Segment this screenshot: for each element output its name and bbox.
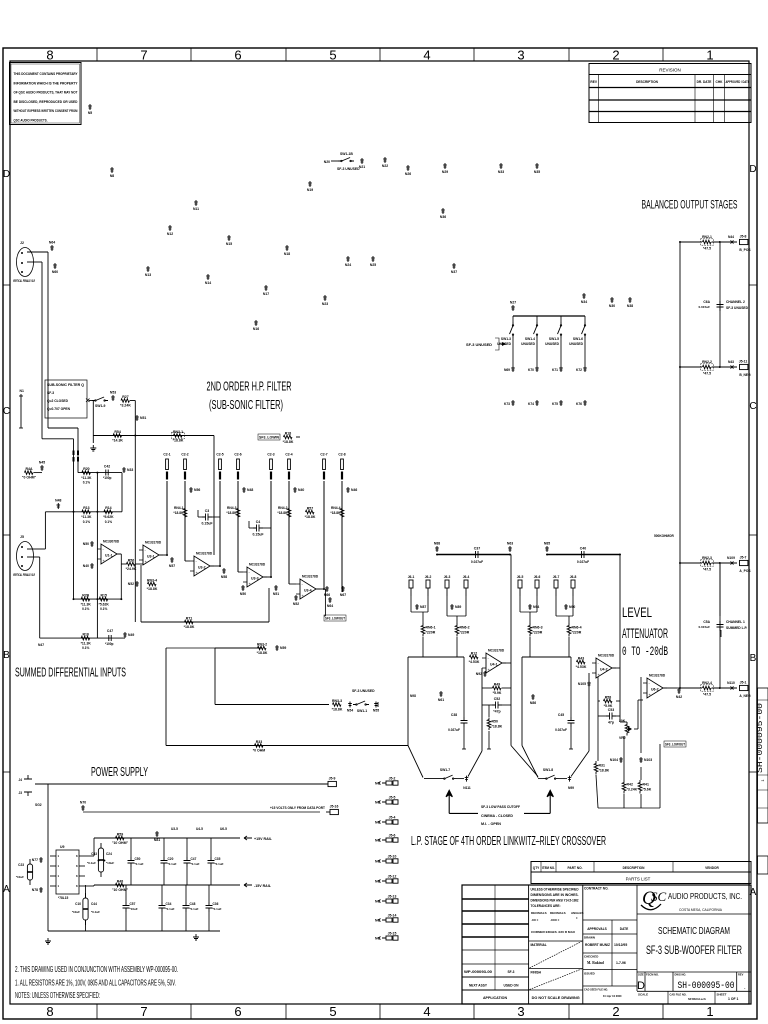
junction xyxy=(98,860,100,862)
capacitor C20 xyxy=(161,857,168,867)
no-connect test point N17 xyxy=(264,285,268,291)
svg-text:C47: C47 xyxy=(107,629,113,633)
svg-text:N99: N99 xyxy=(568,786,574,790)
svg-text:INFORMATION WHICH IS THE PROPE: INFORMATION WHICH IS THE PROPERTY xyxy=(14,81,79,85)
svg-text:*47p: *47p xyxy=(493,710,500,714)
svg-text:DRAWN: DRAWN xyxy=(584,936,595,940)
svg-text:.XXX ±: .XXX ± xyxy=(550,918,560,922)
svg-text:UNLESS OTHERWISE SPECIFIED: UNLESS OTHERWISE SPECIFIED xyxy=(531,888,580,892)
svg-text:MC33178D: MC33178D xyxy=(649,674,666,678)
svg-text:CORNER EDGES .020 R MAX: CORNER EDGES .020 R MAX xyxy=(531,930,575,934)
junction xyxy=(679,562,681,564)
connector pin J5-7 xyxy=(740,560,748,565)
svg-text:C20: C20 xyxy=(168,857,174,861)
capacitor C37 xyxy=(472,551,482,558)
op-amp U4-1 xyxy=(482,653,506,673)
junction xyxy=(436,554,438,556)
svg-text:C2-2: C2-2 xyxy=(181,453,188,457)
svg-text:0.027uF: 0.027uF xyxy=(577,560,589,564)
svg-text:SF-3 LOW PASS CUTOFF: SF-3 LOW PASS CUTOFF xyxy=(481,805,520,809)
wire xyxy=(165,648,167,746)
rail arrows xyxy=(240,836,252,840)
svg-text:N78: N78 xyxy=(32,888,38,892)
svg-text:5: 5 xyxy=(329,1004,336,1019)
connector pin J5-11 xyxy=(740,364,748,369)
svg-text:*3.24K: *3.24K xyxy=(627,788,638,792)
svg-text:N48: N48 xyxy=(55,499,61,503)
svg-text:U3-5: U3-5 xyxy=(171,827,178,831)
connector pin J5-1 xyxy=(740,685,748,690)
svg-text:SW1-6: SW1-6 xyxy=(573,337,583,341)
svg-text:SF3SCH.sch: SF3SCH.sch xyxy=(688,997,706,1001)
svg-text:C53: C53 xyxy=(608,708,614,712)
svg-text:N60: N60 xyxy=(52,270,58,274)
svg-text:SF3_LOWOUT: SF3_LOWOUT xyxy=(665,743,685,747)
resistor R41 xyxy=(638,780,642,794)
wire fb junction 2 xyxy=(588,673,590,751)
svg-text:N34: N34 xyxy=(581,300,587,304)
svg-text:WITHOUT EXPRESS WRITTEN CONSEN: WITHOUT EXPRESS WRITTEN CONSENT FROM xyxy=(14,109,78,113)
svg-text:SF3_LOWOUT: SF3_LOWOUT xyxy=(325,617,345,621)
svg-text:*0.1uF: *0.1uF xyxy=(87,861,96,865)
svg-text:R14: R14 xyxy=(105,506,111,510)
svg-text:R15: R15 xyxy=(100,594,106,598)
junction xyxy=(719,687,721,689)
svg-text:SUMMED L.P.: SUMMED L.P. xyxy=(726,626,747,630)
svg-text:VR2: VR2 xyxy=(619,736,626,740)
svg-text:0.027uF: 0.027uF xyxy=(555,728,567,732)
resistor RN4-1 xyxy=(183,506,187,520)
svg-text:*0.1uF: *0.1uF xyxy=(213,907,222,911)
svg-text:.XX ±: .XX ± xyxy=(531,918,539,922)
wire vertical to RT1 xyxy=(134,436,136,623)
wire funnel diag xyxy=(408,746,423,778)
svg-text:5: 5 xyxy=(329,48,336,63)
svg-text:N33: N33 xyxy=(127,468,133,472)
svg-text:R43: R43 xyxy=(578,656,584,660)
svg-text:UNUSED: UNUSED xyxy=(569,342,584,346)
svg-text:N61: N61 xyxy=(438,698,444,702)
svg-text:0.027uF: 0.027uF xyxy=(448,728,460,732)
svg-text:DECIMALS: DECIMALS xyxy=(531,911,547,915)
svg-text:U3-4: U3-4 xyxy=(304,589,312,593)
svg-text:A_POS: A_POS xyxy=(739,569,751,573)
wire ps left vertical xyxy=(47,784,49,931)
junction xyxy=(73,598,75,600)
svg-text:N98: N98 xyxy=(410,694,416,698)
power supply top wire xyxy=(35,783,328,785)
svg-text:TOLERANCES ARE:: TOLERANCES ARE: xyxy=(531,904,561,908)
wire R13 row xyxy=(45,511,122,513)
svg-text:N64: N64 xyxy=(327,604,333,608)
wire bus2 drop to VR2 xyxy=(619,555,621,723)
wire xyxy=(268,588,270,622)
svg-text:N19: N19 xyxy=(307,188,313,192)
svg-text:N22: N22 xyxy=(382,164,388,168)
svg-text:*10uF: *10uF xyxy=(72,910,80,914)
svg-text:REV: REV xyxy=(590,80,597,84)
pin N60 xyxy=(53,263,57,269)
svg-text:N64: N64 xyxy=(49,241,55,245)
svg-text:2: 2 xyxy=(612,1004,619,1019)
svg-text:RN2-3: RN2-3 xyxy=(702,556,712,560)
svg-text:C50: C50 xyxy=(135,857,141,861)
wire R2B row xyxy=(73,598,121,600)
svg-text:SCALE: SCALE xyxy=(638,993,648,997)
svg-text:N63: N63 xyxy=(507,542,513,546)
svg-text:1. ALL RESISTORS ARE 1%, 100V,: 1. ALL RESISTORS ARE 1%, 100V, 0805 AND … xyxy=(15,979,176,988)
no-connect test point N5 xyxy=(88,104,92,110)
svg-text:N30: N30 xyxy=(609,304,615,308)
svg-text:RN6-1: RN6-1 xyxy=(426,626,436,630)
svg-text:C24: C24 xyxy=(106,852,112,856)
resistor R48 xyxy=(116,883,125,887)
resistor R42 xyxy=(622,780,626,794)
svg-text:2ND ORDER H.P. FILTER: 2ND ORDER H.P. FILTER xyxy=(207,380,292,394)
svg-text:N12: N12 xyxy=(167,232,173,236)
svg-text:J5-8: J5-8 xyxy=(740,234,747,238)
size / dwg no row xyxy=(637,972,751,991)
svg-text:*47.5: *47.5 xyxy=(703,246,711,250)
svg-text:U3-1: U3-1 xyxy=(147,555,155,559)
no-connect test point N23 xyxy=(323,295,327,301)
svg-text:RN3-4: RN3-4 xyxy=(147,578,157,582)
svg-text:N81: N81 xyxy=(154,838,160,842)
ps bottom wire xyxy=(48,930,220,932)
svg-text:*18.8K: *18.8K xyxy=(277,511,288,515)
svg-text:*5.62K: *5.62K xyxy=(99,602,110,606)
svg-text:C2-5: C2-5 xyxy=(216,453,223,457)
svg-text:N24: N24 xyxy=(345,263,351,267)
pin N61 xyxy=(439,691,443,697)
resistor RN6-3 xyxy=(528,623,532,637)
svg-text:*11.3K: *11.3K xyxy=(81,476,92,480)
svg-text:RN2-1: RN2-1 xyxy=(702,235,712,239)
no-connect test point N13 xyxy=(146,266,150,272)
wire sw1-9 left drop xyxy=(92,401,94,436)
svg-text:0.1%: 0.1% xyxy=(83,481,90,485)
svg-text:U4-5: U4-5 xyxy=(196,827,203,831)
svg-text:3: 3 xyxy=(517,48,524,63)
svg-text:SF3_LOWIN: SF3_LOWIN xyxy=(259,436,280,440)
svg-text:*18.8K: *18.8K xyxy=(226,511,237,515)
wire J2 pin2 xyxy=(27,261,42,263)
resistor R4A xyxy=(25,471,34,475)
svg-text:RN2-2: RN2-2 xyxy=(702,360,712,364)
svg-text:N92: N92 xyxy=(476,672,482,676)
svg-text:THIS DOCUMENT CONTAINS PROPRIE: THIS DOCUMENT CONTAINS PROPRIETARY xyxy=(14,72,78,76)
pin N109 xyxy=(731,561,734,564)
capacitor C1-1 xyxy=(73,451,75,462)
svg-text:MC33178D: MC33178D xyxy=(196,552,213,556)
proprietary notice box xyxy=(10,63,82,125)
svg-text:*18.8K: *18.8K xyxy=(492,725,503,729)
resistor RN2-1 xyxy=(703,240,712,244)
svg-text:DESCRIPTION: DESCRIPTION xyxy=(623,866,645,870)
svg-text:*18.8K: *18.8K xyxy=(283,440,294,444)
svg-text:REVISION: REVISION xyxy=(659,68,681,73)
svg-text:R13: R13 xyxy=(83,506,89,510)
svg-text:U6-2: U6-2 xyxy=(651,688,659,692)
svg-text:J6-7: J6-7 xyxy=(553,575,560,579)
svg-text:K72: K72 xyxy=(576,368,582,372)
svg-text:J5-12: J5-12 xyxy=(388,875,397,879)
ground ps xyxy=(45,938,51,944)
capacitor C53 xyxy=(606,713,616,720)
wire bus2 vertical xyxy=(73,439,75,599)
svg-text:N55: N55 xyxy=(373,709,379,713)
svg-text:L.P. STAGE OF 4TH ORDER LINKWI: L.P. STAGE OF 4TH ORDER LINKWITZ–RILEY C… xyxy=(411,833,606,848)
wire xyxy=(323,481,325,589)
svg-text:J5-11: J5-11 xyxy=(739,359,748,363)
svg-text:*0.1uF: *0.1uF xyxy=(166,907,175,911)
resistor R43 xyxy=(577,660,586,664)
wire input bus jogs xyxy=(47,252,49,428)
svg-text:*0.1uF: *0.1uF xyxy=(135,862,144,866)
svg-text:SF-3 UNUSED: SF-3 UNUSED xyxy=(726,306,749,310)
wire to U3-4 minus xyxy=(289,583,296,585)
svg-text:N48: N48 xyxy=(247,488,253,492)
op-amp U3-3 xyxy=(243,567,267,587)
capacitor C10 / C44 xyxy=(83,893,88,925)
svg-text:C42: C42 xyxy=(104,465,110,469)
svg-text:6: 6 xyxy=(234,48,241,63)
wire U3-3 out xyxy=(263,576,271,578)
svg-text:2: 2 xyxy=(612,48,619,63)
svg-text:U6-5: U6-5 xyxy=(220,827,227,831)
svg-text:C35: C35 xyxy=(215,857,221,861)
svg-text:*100p: *100p xyxy=(103,476,112,480)
svg-text:ROBERT MUNIZ: ROBERT MUNIZ xyxy=(585,943,611,947)
svg-text:ITEM NO.: ITEM NO. xyxy=(542,866,555,870)
svg-text:R48: R48 xyxy=(117,879,123,883)
svg-text:N49: N49 xyxy=(128,633,134,637)
svg-text:6: 6 xyxy=(234,1004,241,1019)
wire funnel left xyxy=(407,657,409,746)
no-connect test point N36 xyxy=(441,208,445,214)
pin K73 xyxy=(511,400,515,406)
svg-text:C47: C47 xyxy=(191,857,197,861)
wire out vertical / bus drop xyxy=(510,555,512,746)
svg-text:R50: R50 xyxy=(492,720,498,724)
svg-text:N109: N109 xyxy=(727,556,735,560)
svg-text:C6A: C6A xyxy=(703,300,710,304)
capacitor C5A xyxy=(717,621,724,631)
op-amp U6-2 xyxy=(643,678,667,698)
pin N86 xyxy=(531,694,535,700)
svg-text:N105: N105 xyxy=(578,682,586,686)
svg-text:D: D xyxy=(749,164,756,175)
svg-text:N21: N21 xyxy=(359,165,365,169)
svg-text:J6-6: J6-6 xyxy=(534,575,541,579)
wire attenuator box right xyxy=(640,677,642,753)
svg-text:BALANCED OUTPUT STAGES: BALANCED OUTPUT STAGES xyxy=(642,198,738,212)
svg-text:CAD FILE NO.: CAD FILE NO. xyxy=(670,993,687,997)
junction xyxy=(509,554,511,556)
pin N64 xyxy=(50,245,54,251)
capacitor C6A xyxy=(717,301,724,311)
svg-text:0.027uF: 0.027uF xyxy=(471,560,483,564)
svg-text:N18: N18 xyxy=(284,252,290,256)
svg-text:R54: R54 xyxy=(114,430,120,434)
svg-text:Fri Apr 10 2000: Fri Apr 10 2000 xyxy=(603,994,622,998)
svg-text:U4-1: U4-1 xyxy=(490,663,498,667)
resistor R49 xyxy=(493,686,501,690)
svg-text:SW1-7: SW1-7 xyxy=(440,768,450,772)
svg-text:*47.5: *47.5 xyxy=(703,567,711,571)
right edge document number strip xyxy=(758,688,768,823)
junction xyxy=(719,562,721,564)
junction xyxy=(166,554,168,556)
svg-text:C37: C37 xyxy=(474,547,480,551)
svg-text:R56: R56 xyxy=(128,558,134,562)
svg-text:C: C xyxy=(749,401,756,412)
svg-text:4: 4 xyxy=(423,48,430,63)
junction xyxy=(679,241,681,243)
svg-text:R16: R16 xyxy=(82,633,88,637)
svg-text:SW1-1B: SW1-1B xyxy=(340,152,353,156)
svg-text:LEVEL: LEVEL xyxy=(622,605,652,620)
svg-text:0.1%: 0.1% xyxy=(105,520,112,524)
svg-text:N53: N53 xyxy=(110,391,116,395)
svg-text:J4: J4 xyxy=(18,778,22,782)
svg-text:NOTES: UNLESS OTHERWISE SPECIF: NOTES: UNLESS OTHERWISE SPECIFIED: xyxy=(15,991,100,1000)
net flag SF3_LOWOUT 2 xyxy=(664,741,686,747)
svg-text:K71: K71 xyxy=(552,368,558,372)
wire J5 pin2 xyxy=(27,556,33,558)
zone tick marks bottom xyxy=(96,1004,98,1019)
svg-text:B_POS: B_POS xyxy=(739,248,751,252)
resistor RT1 xyxy=(185,620,193,624)
junction xyxy=(120,598,122,600)
no-connect test point N30 xyxy=(610,297,614,303)
svg-text:0.1%: 0.1% xyxy=(100,607,107,611)
svg-text:J6-2: J6-2 xyxy=(425,575,432,579)
svg-text:+15V RAIL: +15V RAIL xyxy=(254,837,273,841)
svg-text:A_NEG: A_NEG xyxy=(739,694,751,698)
svg-text:8: 8 xyxy=(46,48,53,63)
svg-text:UNUSED: UNUSED xyxy=(545,342,560,346)
svg-text:1 OF 1: 1 OF 1 xyxy=(728,997,738,1001)
wire xyxy=(270,481,272,577)
svg-text:U3-3: U3-3 xyxy=(251,577,259,581)
svg-text:*18.8K: *18.8K xyxy=(257,651,268,655)
svg-text:N86: N86 xyxy=(530,701,536,705)
svg-text:2. THIS DRAWING USED IN CONJUN: 2. THIS DRAWING USED IN CONJUNCTION WITH… xyxy=(15,965,178,974)
svg-text:N77: N77 xyxy=(32,858,38,862)
svg-text:DATE: DATE xyxy=(620,927,628,931)
wire RN3-2 row xyxy=(215,647,262,649)
svg-text:N35: N35 xyxy=(534,170,540,174)
no-connect test point N11 xyxy=(194,200,198,206)
svg-text:DR. DATE: DR. DATE xyxy=(697,80,712,84)
wire attenuator box left xyxy=(597,677,599,761)
resistor RN3-1 xyxy=(174,434,182,438)
wire RN3-3 row xyxy=(215,704,329,706)
title block approvals column xyxy=(583,920,637,986)
svg-text:K76: K76 xyxy=(576,402,582,406)
resistor R56 xyxy=(127,562,135,566)
svg-text:C44: C44 xyxy=(91,902,97,906)
svg-text:N46: N46 xyxy=(351,488,357,492)
svg-text:R4A: R4A xyxy=(25,467,32,471)
svg-text:C40: C40 xyxy=(580,547,586,551)
svg-text:N57: N57 xyxy=(169,564,175,568)
svg-text:N67: N67 xyxy=(340,593,346,597)
wire xyxy=(121,473,123,512)
svg-text:C10: C10 xyxy=(75,902,81,906)
svg-text:UNUSED: UNUSED xyxy=(521,342,536,346)
wire U3-4 output to flag xyxy=(324,589,326,616)
resistor R54 xyxy=(113,434,122,438)
junction xyxy=(719,366,721,368)
svg-text:N52: N52 xyxy=(128,582,134,586)
svg-text:J5-5: J5-5 xyxy=(389,796,396,800)
svg-text:DESCRIPTION: DESCRIPTION xyxy=(636,80,658,84)
svg-text:C45: C45 xyxy=(558,713,564,717)
svg-text:C2-6: C2-6 xyxy=(234,453,241,457)
zone tick marks top xyxy=(96,48,98,61)
wire RT1 row xyxy=(141,621,269,623)
svg-text:N66: N66 xyxy=(324,593,330,597)
svg-text:N38: N38 xyxy=(627,304,633,308)
svg-text:1: 1 xyxy=(706,48,713,63)
svg-text:SC: SC xyxy=(651,889,667,904)
svg-text:*24.9K: *24.9K xyxy=(126,567,137,571)
capacitor C48 xyxy=(183,902,190,912)
pin K76 xyxy=(583,400,587,406)
svg-text:J5-15: J5-15 xyxy=(388,932,397,936)
svg-text:R18: R18 xyxy=(285,431,291,435)
svg-text:0.15uF: 0.15uF xyxy=(201,522,213,526)
svg-text:ANGLES: ANGLES xyxy=(571,911,584,915)
svg-text:N54: N54 xyxy=(347,709,353,713)
svg-text:REV: REV xyxy=(738,973,744,977)
svg-text:N27: N27 xyxy=(510,301,516,305)
resistor RN2-3 xyxy=(703,561,712,565)
switch SW1-3 xyxy=(512,316,514,322)
svg-text:NEXT ASSY: NEXT ASSY xyxy=(469,984,488,988)
svg-text:BE DISCLOSED, REPRODUCED OR US: BE DISCLOSED, REPRODUCED OR USED xyxy=(14,100,78,104)
svg-text:N59: N59 xyxy=(280,646,286,650)
no-connect test point N24 xyxy=(346,256,350,262)
svg-text:N47: N47 xyxy=(38,643,44,647)
svg-text:*0.1uF: *0.1uF xyxy=(215,862,224,866)
svg-text:*100p: *100p xyxy=(105,642,114,646)
svg-text:AUDIO PRODUCTS, INC.: AUDIO PRODUCTS, INC. xyxy=(668,891,742,901)
svg-text:J5: J5 xyxy=(20,535,24,539)
no-connect test point N37 xyxy=(452,263,456,269)
wire switch bank bus xyxy=(513,315,585,317)
svg-text:*10uF: *10uF xyxy=(130,907,138,911)
resistor RN6-2 xyxy=(455,623,459,637)
svg-text:J6-5: J6-5 xyxy=(517,575,524,579)
svg-text:N104: N104 xyxy=(610,758,618,762)
svg-text:D: D xyxy=(3,169,10,180)
svg-text:POWER SUPPLY: POWER SUPPLY xyxy=(91,764,148,779)
no-connect test point N22 xyxy=(383,157,387,163)
svg-text:K74: K74 xyxy=(528,402,534,406)
wire xyxy=(237,481,239,572)
resistor R13 xyxy=(82,510,91,514)
svg-text:DWG NO.: DWG NO. xyxy=(675,973,687,977)
svg-text:-15V RAIL: -15V RAIL xyxy=(254,884,272,888)
svg-text:MC33078D: MC33078D xyxy=(103,540,120,544)
svg-text:*18.8K: *18.8K xyxy=(599,769,610,773)
svg-text:0.1%: 0.1% xyxy=(83,520,90,524)
resistor R2B xyxy=(81,597,90,601)
svg-text:4: 4 xyxy=(423,1004,430,1019)
